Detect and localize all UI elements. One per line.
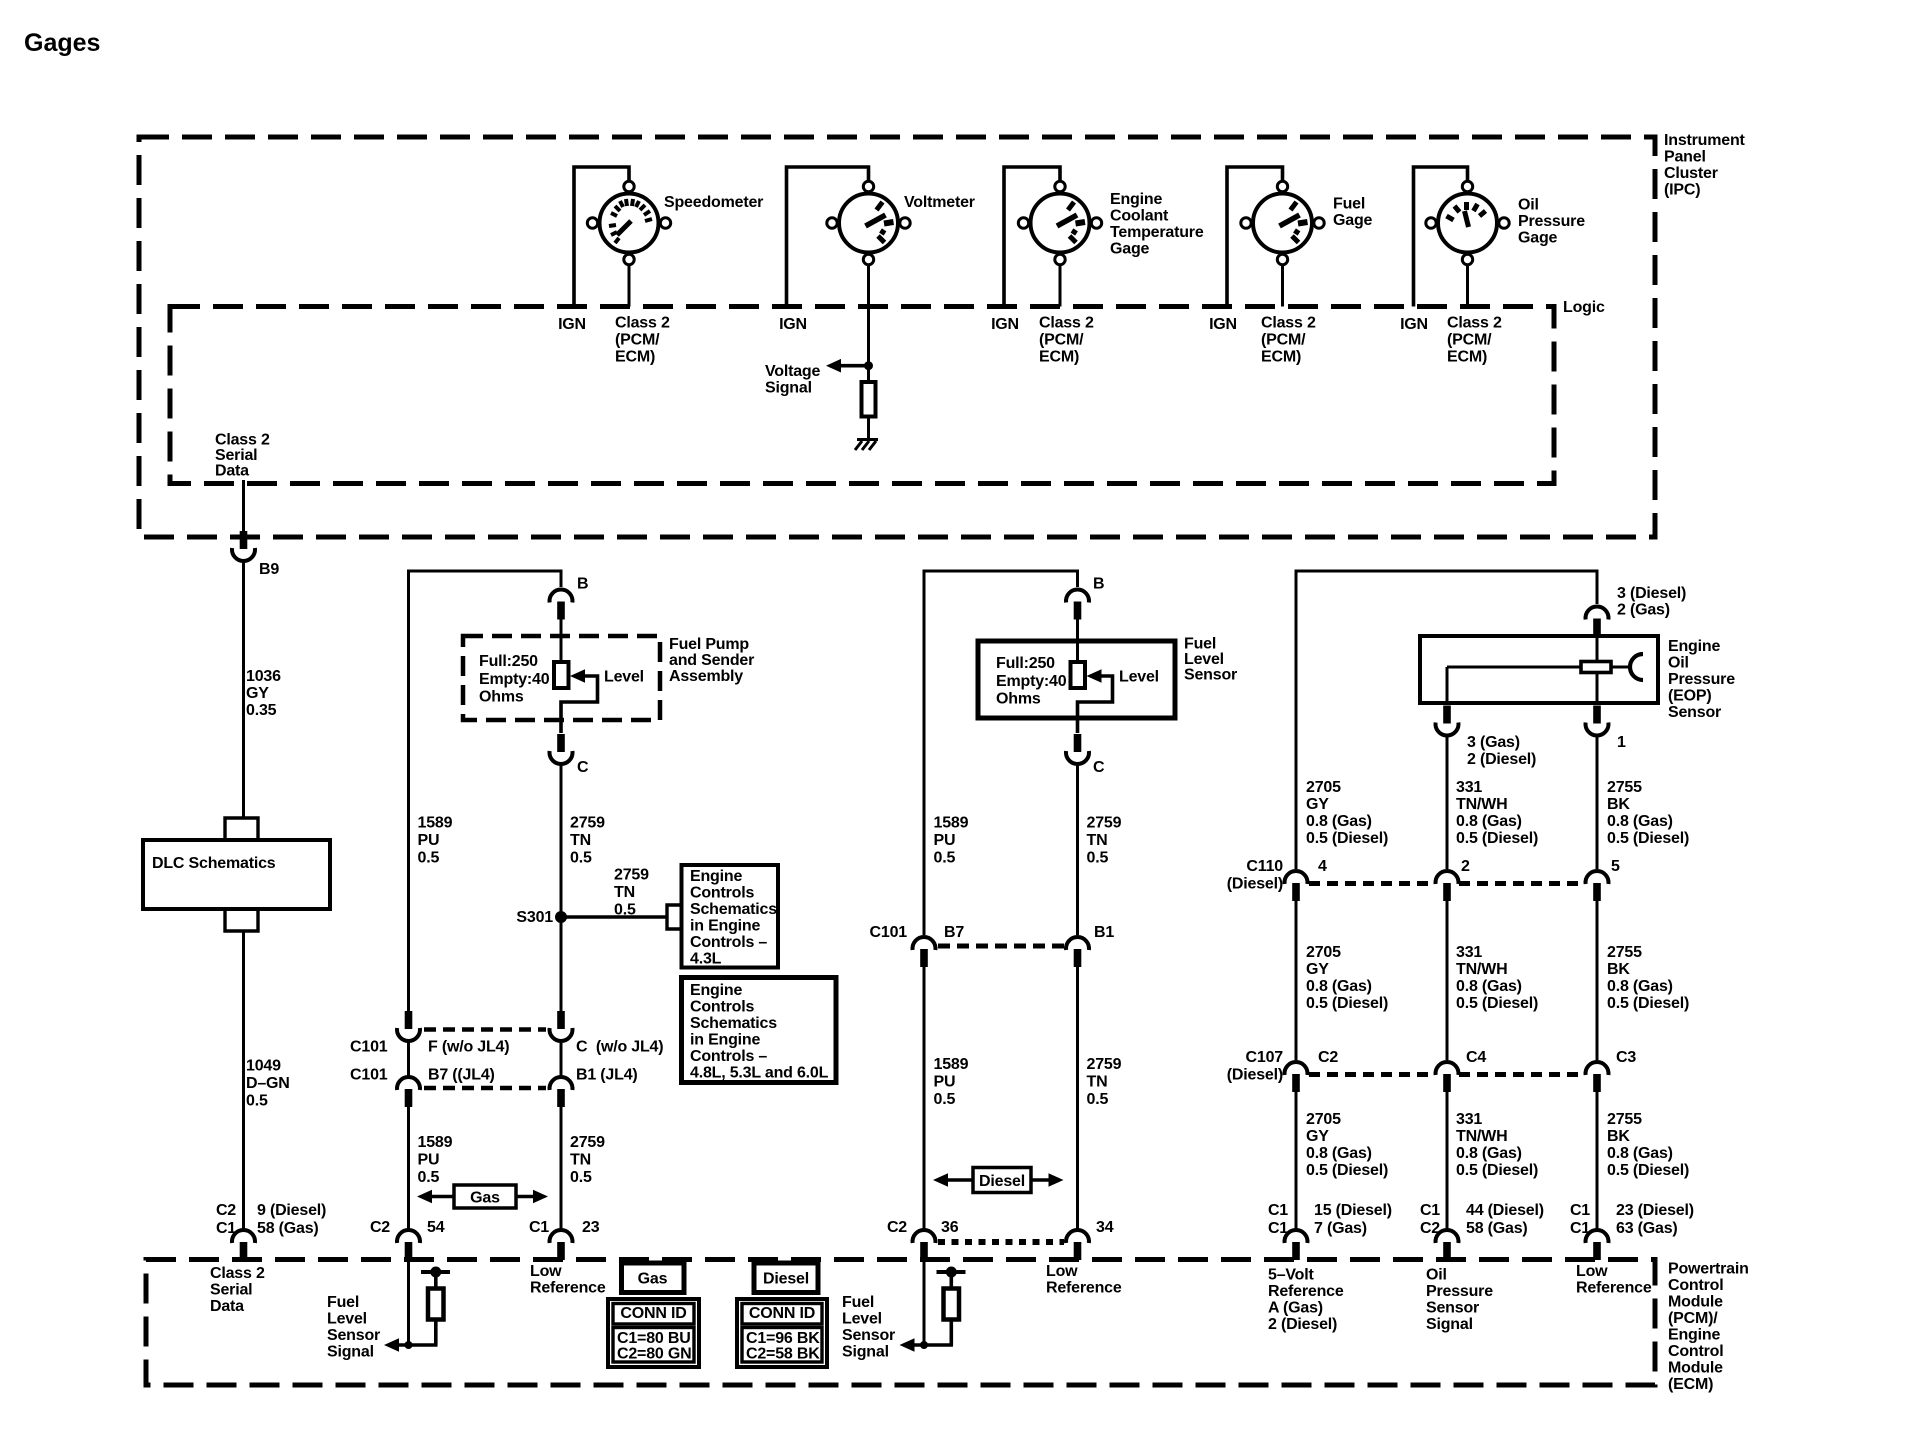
svg-text:TN/WH: TN/WH — [1456, 796, 1507, 813]
Engine Oil Pressure Sensor box — [1420, 636, 1658, 703]
svg-text:0.8 (Gas): 0.8 (Gas) — [1456, 1145, 1522, 1162]
svg-text:0.5: 0.5 — [570, 850, 592, 867]
wire into fuel level sensor — [1076, 619, 1079, 663]
svg-text:0.8 (Gas): 0.8 (Gas) — [1607, 813, 1673, 830]
svg-text:Sensor: Sensor — [1668, 704, 1721, 721]
svg-text:TN/WH: TN/WH — [1456, 961, 1507, 978]
Engine Controls Schematics 4.3L box — [682, 865, 779, 968]
svg-text:Reference: Reference — [1576, 1280, 1652, 1297]
connector C fuel pump — [550, 734, 573, 764]
svg-text:0.5: 0.5 — [614, 902, 636, 919]
gauge oil pressure — [1426, 181, 1509, 264]
svg-text:IGN: IGN — [1400, 316, 1428, 333]
svg-text:Gage: Gage — [1110, 241, 1150, 258]
Gas conn id label box — [622, 1263, 685, 1293]
svg-text:F (w/o JL4): F (w/o JL4) — [428, 1039, 509, 1056]
wire IGN feed speedometer — [574, 167, 629, 307]
svg-text:3 (Gas): 3 (Gas) — [1467, 734, 1520, 751]
svg-text:Class 2: Class 2 — [615, 315, 670, 332]
svg-text:IGN: IGN — [779, 316, 807, 333]
Fuel Level Sensor box — [978, 641, 1175, 718]
svg-text:Speedometer: Speedometer — [664, 194, 763, 211]
svg-text:0.5 (Diesel): 0.5 (Diesel) — [1306, 830, 1388, 847]
dashed connector row lines C101 — [424, 1027, 546, 1032]
svg-text:2759: 2759 — [614, 867, 649, 884]
svg-text:Engine: Engine — [690, 868, 742, 885]
svg-text:Engine: Engine — [1668, 1327, 1720, 1344]
wire S301 branch to engine controls — [561, 915, 667, 919]
svg-text:B9: B9 — [259, 561, 279, 578]
svg-text:B: B — [1093, 576, 1104, 593]
svg-text:Logic: Logic — [1563, 299, 1605, 316]
svg-text:Pressure: Pressure — [1668, 671, 1735, 688]
svg-text:58 (Gas): 58 (Gas) — [257, 1220, 319, 1237]
svg-text:CONN ID: CONN ID — [749, 1305, 815, 1322]
svg-text:1: 1 — [1617, 734, 1626, 751]
svg-text:C1: C1 — [1570, 1202, 1590, 1219]
svg-text:331: 331 — [1456, 779, 1482, 796]
svg-text:0.5 (Diesel): 0.5 (Diesel) — [1456, 1162, 1538, 1179]
svg-text:4: 4 — [1318, 858, 1327, 875]
DLC Schematics box — [143, 840, 330, 909]
wiper arrow and level wire (gas) — [570, 669, 585, 683]
svg-text:C: C — [1093, 759, 1105, 776]
svg-text:ECM): ECM) — [615, 349, 655, 366]
svg-text:Gage: Gage — [1518, 230, 1558, 247]
svg-text:Voltmeter: Voltmeter — [904, 194, 975, 211]
svg-text:1036: 1036 — [246, 668, 281, 685]
svg-text:C2: C2 — [216, 1202, 236, 1219]
svg-text:Full:250: Full:250 — [996, 655, 1055, 672]
svg-text:Gage: Gage — [1333, 212, 1373, 229]
resistor fuel level sensor (diesel) — [1071, 662, 1086, 688]
svg-text:0.8 (Gas): 0.8 (Gas) — [1456, 813, 1522, 830]
svg-text:D–GN: D–GN — [246, 1075, 290, 1092]
Fuel Pump and Sender Assembly dashed box — [463, 636, 660, 720]
svg-text:Serial: Serial — [210, 1282, 252, 1299]
svg-text:C2: C2 — [370, 1219, 390, 1236]
svg-text:Serial: Serial — [215, 447, 257, 464]
svg-text:0.5 (Diesel): 0.5 (Diesel) — [1306, 1162, 1388, 1179]
svg-text:GY: GY — [246, 685, 269, 702]
Engine Controls Schematics 4.8L box — [682, 978, 837, 1083]
svg-text:C1=96 BK: C1=96 BK — [746, 1330, 820, 1347]
svg-text:GY: GY — [1306, 796, 1329, 813]
svg-text:2759: 2759 — [1087, 1056, 1122, 1073]
svg-text:5: 5 — [1611, 858, 1620, 875]
svg-text:0.5: 0.5 — [934, 850, 956, 867]
wiper arrow and level wire (diesel) — [1087, 669, 1102, 683]
svg-text:DLC Schematics: DLC Schematics — [152, 855, 276, 872]
svg-text:Engine: Engine — [1668, 638, 1720, 655]
svg-text:0.5 (Diesel): 0.5 (Diesel) — [1607, 830, 1689, 847]
svg-text:4.3L: 4.3L — [690, 951, 722, 968]
svg-text:B7: B7 — [944, 924, 964, 941]
svg-text:Controls: Controls — [690, 885, 754, 902]
svg-text:B7 ((JL4): B7 ((JL4) — [428, 1067, 495, 1084]
svg-text:(PCM/: (PCM/ — [615, 332, 660, 349]
svg-text:Ohms: Ohms — [479, 689, 524, 706]
svg-text:(PCM/: (PCM/ — [1261, 332, 1306, 349]
svg-text:Sensor: Sensor — [327, 1327, 380, 1344]
svg-text:(PCM)/: (PCM)/ — [1668, 1310, 1718, 1327]
Diesel range arrows and box — [933, 1173, 948, 1187]
svg-text:IGN: IGN — [1209, 316, 1237, 333]
connector low reference into PCM (gas) — [550, 1230, 573, 1260]
svg-text:BK: BK — [1607, 796, 1630, 813]
svg-text:34: 34 — [1096, 1219, 1114, 1236]
svg-text:C4: C4 — [1466, 1049, 1486, 1066]
svg-text:Control: Control — [1668, 1277, 1723, 1294]
svg-text:7 (Gas): 7 (Gas) — [1314, 1220, 1367, 1237]
svg-text:C101: C101 — [350, 1067, 388, 1084]
svg-text:Controls: Controls — [690, 999, 754, 1016]
EOP internal wires — [1596, 636, 1599, 662]
svg-text:1589: 1589 — [418, 1134, 453, 1151]
connector C101 F upper half (left wire) — [397, 1011, 420, 1041]
svg-text:Module: Module — [1668, 1360, 1723, 1377]
svg-text:C (w/o JL4): C (w/o JL4) — [576, 1039, 663, 1056]
svg-text:C2=58 BK: C2=58 BK — [746, 1346, 820, 1363]
svg-text:Engine: Engine — [1110, 191, 1162, 208]
dashed jumpers C107 — [1309, 1072, 1435, 1077]
svg-text:(IPC): (IPC) — [1664, 182, 1700, 199]
wires C110 to C107 — [1295, 900, 1298, 1060]
svg-text:1589: 1589 — [934, 815, 969, 832]
wire gas fuel sender rail — [409, 571, 562, 1015]
svg-text:0.5: 0.5 — [570, 1169, 592, 1186]
svg-text:in Engine: in Engine — [690, 1032, 761, 1049]
CONN ID table gas — [608, 1299, 699, 1367]
svg-text:Class 2: Class 2 — [1039, 315, 1094, 332]
svg-text:2 (Diesel): 2 (Diesel) — [1467, 751, 1536, 768]
svg-text:331: 331 — [1456, 1111, 1482, 1128]
dotted jumper connectors 36-34 — [938, 1239, 1064, 1245]
svg-text:Fuel Pump: Fuel Pump — [669, 636, 749, 653]
svg-text:Gas: Gas — [638, 1271, 668, 1288]
svg-text:TN/WH: TN/WH — [1456, 1128, 1507, 1145]
gauge engine coolant temperature — [1018, 181, 1101, 264]
svg-text:Gas: Gas — [470, 1190, 500, 1207]
svg-text:0.8 (Gas): 0.8 (Gas) — [1456, 978, 1522, 995]
svg-text:Class 2: Class 2 — [210, 1265, 265, 1282]
svg-text:Oil: Oil — [1668, 655, 1689, 672]
svg-text:0.5: 0.5 — [1087, 1091, 1109, 1108]
connector C fuel level sensor — [1066, 734, 1089, 764]
svg-text:2759: 2759 — [570, 815, 605, 832]
svg-text:2705: 2705 — [1306, 779, 1341, 796]
svg-text:1049: 1049 — [246, 1058, 281, 1075]
svg-text:2705: 2705 — [1306, 1111, 1341, 1128]
svg-text:1589: 1589 — [418, 815, 453, 832]
wires C107 to PCM — [1295, 1091, 1298, 1229]
svg-text:ECM): ECM) — [1447, 349, 1487, 366]
connector low reference into PCM (diesel) — [1066, 1230, 1089, 1260]
svg-text:0.8 (Gas): 0.8 (Gas) — [1306, 1145, 1372, 1162]
svg-text:TN: TN — [614, 884, 635, 901]
svg-text:Schematics: Schematics — [690, 1015, 777, 1032]
svg-text:Module: Module — [1668, 1294, 1723, 1311]
resistor fuel sender (gas) — [554, 662, 569, 688]
gauge speedometer — [587, 181, 670, 264]
svg-text:Sensor: Sensor — [842, 1327, 895, 1344]
svg-text:Data: Data — [215, 463, 249, 480]
svg-text:Signal: Signal — [1426, 1316, 1473, 1333]
connector B fuel pump — [550, 589, 573, 619]
svg-text:GY: GY — [1306, 961, 1329, 978]
svg-text:Schematics: Schematics — [690, 901, 777, 918]
connector fuel level sensor signal into PCM (gas) — [397, 1230, 420, 1260]
svg-text:2755: 2755 — [1607, 944, 1642, 961]
svg-text:B: B — [577, 576, 588, 593]
connector B fuel level sensor — [1066, 589, 1089, 619]
connector EOP pin top — [1586, 606, 1609, 636]
svg-text:Class 2: Class 2 — [215, 432, 270, 449]
svg-text:Fuel: Fuel — [1333, 196, 1365, 213]
IPC logic dashed box — [170, 307, 1554, 484]
connector EOP pin bottom right — [1586, 706, 1609, 736]
svg-text:2759: 2759 — [1087, 815, 1122, 832]
svg-text:TN: TN — [570, 832, 591, 849]
svg-text:Diesel: Diesel — [979, 1173, 1025, 1190]
svg-text:C3: C3 — [1616, 1049, 1636, 1066]
svg-text:(PCM/: (PCM/ — [1447, 332, 1492, 349]
svg-text:0.5 (Diesel): 0.5 (Diesel) — [1607, 995, 1689, 1012]
connectors C110 row — [1285, 871, 1308, 901]
wire 1589 PU lower (gas) — [407, 1106, 410, 1229]
svg-text:(PCM/: (PCM/ — [1039, 332, 1084, 349]
connector C101 C upper half (right wire) — [550, 1011, 573, 1041]
svg-text:(Diesel): (Diesel) — [1227, 876, 1283, 893]
svg-text:0.5 (Diesel): 0.5 (Diesel) — [1306, 995, 1388, 1012]
svg-text:0.35: 0.35 — [246, 702, 277, 719]
PCM internal: fuel level sensor signal circuit (gas) — [407, 1260, 410, 1345]
svg-text:2759: 2759 — [570, 1134, 605, 1151]
svg-text:A (Gas): A (Gas) — [1268, 1300, 1323, 1317]
svg-text:TN: TN — [1087, 832, 1108, 849]
svg-text:Low: Low — [1576, 1263, 1608, 1280]
svg-text:Reference: Reference — [530, 1280, 606, 1297]
wire voltmeter voltage signal — [867, 265, 870, 382]
svg-text:ECM): ECM) — [1039, 349, 1079, 366]
svg-text:3 (Diesel): 3 (Diesel) — [1617, 585, 1686, 602]
svg-text:0.5: 0.5 — [1087, 850, 1109, 867]
svg-text:CONN ID: CONN ID — [620, 1305, 686, 1322]
svg-text:PU: PU — [418, 832, 440, 849]
svg-text:Level: Level — [604, 669, 644, 686]
svg-text:Reference: Reference — [1046, 1280, 1122, 1297]
svg-text:2755: 2755 — [1607, 1111, 1642, 1128]
wire 2759 TN upper (gas) — [560, 764, 563, 1015]
svg-text:Engine: Engine — [690, 982, 742, 999]
svg-text:Coolant: Coolant — [1110, 208, 1169, 225]
CONN ID table diesel — [737, 1299, 827, 1367]
svg-text:Level: Level — [1119, 669, 1159, 686]
EOP internal sense element — [1581, 662, 1611, 673]
svg-text:Temperature: Temperature — [1110, 224, 1204, 241]
svg-text:IGN: IGN — [558, 316, 586, 333]
svg-text:PU: PU — [418, 1152, 440, 1169]
svg-text:0.5: 0.5 — [934, 1091, 956, 1108]
gauge fuel — [1241, 181, 1324, 264]
svg-text:C110: C110 — [1246, 858, 1283, 875]
svg-text:54: 54 — [427, 1219, 445, 1236]
svg-text:C1=80 BU: C1=80 BU — [617, 1330, 691, 1347]
svg-text:5–Volt: 5–Volt — [1268, 1267, 1315, 1284]
terminal clip DLC top — [225, 818, 258, 838]
svg-text:Pressure: Pressure — [1518, 213, 1585, 230]
svg-text:and Sender: and Sender — [669, 652, 754, 669]
svg-text:(Diesel): (Diesel) — [1227, 1067, 1283, 1084]
svg-text:PU: PU — [934, 1074, 956, 1091]
svg-text:Controls –: Controls – — [690, 934, 767, 951]
svg-text:2 (Diesel): 2 (Diesel) — [1268, 1316, 1337, 1333]
wire class 2 serial data — [242, 480, 245, 532]
svg-text:0.5 (Diesel): 0.5 (Diesel) — [1456, 995, 1538, 1012]
svg-text:Empty:40: Empty:40 — [996, 673, 1067, 690]
connector C101 B7 (diesel) — [913, 937, 936, 967]
svg-text:(EOP): (EOP) — [1668, 688, 1711, 705]
svg-text:Cluster: Cluster — [1664, 165, 1718, 182]
svg-text:Level: Level — [327, 1311, 367, 1328]
svg-text:23: 23 — [582, 1219, 600, 1236]
svg-text:C2: C2 — [887, 1219, 907, 1236]
PCM dashed box — [146, 1260, 1655, 1386]
off-page bracket — [667, 905, 681, 929]
svg-text:Level: Level — [1184, 651, 1224, 668]
wire IGN feed fuel gage — [1227, 167, 1283, 307]
wire between C101 halves (left) — [407, 1041, 410, 1077]
svg-text:Full:250: Full:250 — [479, 653, 538, 670]
wire IGN feed voltmeter — [787, 167, 869, 307]
svg-text:36: 36 — [941, 1219, 959, 1236]
svg-text:C101: C101 — [870, 924, 908, 941]
svg-text:TN: TN — [570, 1152, 591, 1169]
svg-text:Sensor: Sensor — [1184, 667, 1237, 684]
wire 1036 GY — [242, 561, 245, 817]
connector EOP pin bottom mid — [1436, 706, 1459, 736]
svg-text:Signal: Signal — [842, 1344, 889, 1361]
svg-text:Ohms: Ohms — [996, 691, 1041, 708]
wire oil gage class 2 output — [1466, 265, 1469, 307]
Gas range arrows and box — [417, 1190, 432, 1204]
svg-text:TN: TN — [1087, 1074, 1108, 1091]
svg-text:Empty:40: Empty:40 — [479, 671, 550, 688]
wire 2759 TN lower (gas) — [560, 1106, 563, 1229]
svg-text:C1: C1 — [529, 1219, 549, 1236]
svg-text:Gages: Gages — [24, 29, 100, 57]
svg-text:B1 (JL4): B1 (JL4) — [576, 1067, 638, 1084]
svg-text:in Engine: in Engine — [690, 918, 761, 935]
wire IGN feed ECT gage — [1004, 167, 1060, 307]
connector C101 B1 lower half (right wire) — [550, 1077, 573, 1107]
connector class2 into PCM — [232, 1230, 255, 1260]
svg-text:(ECM): (ECM) — [1668, 1376, 1713, 1393]
connector C101 B1 (diesel) — [1066, 937, 1089, 967]
svg-text:58 (Gas): 58 (Gas) — [1466, 1220, 1528, 1237]
ground voltmeter — [855, 440, 878, 451]
connector fuel level sensor signal into PCM (diesel) — [913, 1230, 936, 1260]
svg-text:9 (Diesel): 9 (Diesel) — [257, 1202, 326, 1219]
svg-text:4.8L, 5.3L and 6.0L: 4.8L, 5.3L and 6.0L — [690, 1065, 829, 1082]
Instrument Panel Cluster (IPC) dashed box — [139, 137, 1655, 537]
svg-text:Oil: Oil — [1518, 197, 1539, 214]
svg-text:Controls –: Controls – — [690, 1048, 767, 1065]
Diesel conn id label box — [754, 1263, 818, 1293]
svg-text:Class 2: Class 2 — [1447, 315, 1502, 332]
svg-text:Signal: Signal — [327, 1344, 374, 1361]
svg-text:Powertrain: Powertrain — [1668, 1261, 1749, 1278]
svg-text:2: 2 — [1461, 858, 1470, 875]
svg-text:C: C — [577, 759, 589, 776]
svg-text:Low: Low — [530, 1263, 562, 1280]
svg-text:Panel: Panel — [1664, 149, 1706, 166]
wires EOP columns to C110 — [1446, 736, 1449, 870]
wire IGN feed oil pressure gage — [1414, 167, 1468, 307]
svg-text:331: 331 — [1456, 944, 1482, 961]
svg-text:PU: PU — [934, 832, 956, 849]
wire between C101 halves (right) — [560, 1041, 563, 1077]
svg-text:0.5 (Diesel): 0.5 (Diesel) — [1607, 1162, 1689, 1179]
svg-text:Voltage: Voltage — [765, 363, 821, 380]
wire fuel gage class 2 output — [1281, 265, 1284, 307]
wire ECT class 2 output — [1059, 265, 1062, 307]
gauge voltmeter — [827, 181, 910, 264]
svg-text:0.5 (Diesel): 0.5 (Diesel) — [1456, 830, 1538, 847]
svg-text:Class 2: Class 2 — [1261, 315, 1316, 332]
svg-text:C107: C107 — [1246, 1049, 1284, 1066]
svg-text:23 (Diesel): 23 (Diesel) — [1616, 1202, 1694, 1219]
svg-text:GY: GY — [1306, 1128, 1329, 1145]
svg-text:0.8 (Gas): 0.8 (Gas) — [1306, 813, 1372, 830]
dashed jumpers C110 — [1309, 881, 1435, 886]
connectors C107 row — [1285, 1062, 1308, 1092]
svg-text:S301: S301 — [516, 909, 553, 926]
svg-text:Signal: Signal — [765, 380, 812, 397]
arrow voltage signal — [836, 364, 869, 368]
svg-text:Fuel: Fuel — [1184, 636, 1216, 653]
svg-text:Data: Data — [210, 1298, 244, 1315]
svg-text:0.5: 0.5 — [418, 1169, 440, 1186]
svg-text:0.8 (Gas): 0.8 (Gas) — [1306, 978, 1372, 995]
terminal clip DLC bottom — [225, 911, 258, 931]
svg-text:Level: Level — [842, 1311, 882, 1328]
svg-text:Control: Control — [1668, 1343, 1723, 1360]
svg-text:Oil: Oil — [1426, 1267, 1447, 1284]
svg-text:Fuel: Fuel — [327, 1294, 359, 1311]
svg-text:0.8 (Gas): 0.8 (Gas) — [1607, 978, 1673, 995]
connectors into PCM EOP columns — [1285, 1230, 1308, 1260]
svg-text:B1: B1 — [1094, 924, 1114, 941]
wire into fuel pump — [560, 619, 563, 663]
wire speedometer class 2 output — [628, 265, 631, 307]
resistor voltmeter load — [862, 382, 876, 417]
wire 1049 D-GN — [242, 931, 245, 1229]
svg-text:C101: C101 — [350, 1039, 388, 1056]
svg-text:Low: Low — [1046, 1263, 1078, 1280]
PCM internal: fuel level sensor signal circuit (diesel) — [923, 1260, 926, 1345]
svg-text:Sensor: Sensor — [1426, 1300, 1479, 1317]
svg-text:C2=80 GN: C2=80 GN — [617, 1346, 691, 1363]
wire 1589 PU lower (diesel) — [923, 966, 926, 1229]
svg-text:C1: C1 — [1268, 1202, 1288, 1219]
svg-text:C2: C2 — [1318, 1049, 1338, 1066]
connector B9 — [232, 531, 255, 561]
svg-text:Diesel: Diesel — [763, 1271, 809, 1288]
svg-text:0.5: 0.5 — [246, 1093, 268, 1110]
wire EOP rail — [1296, 571, 1597, 869]
svg-text:63 (Gas): 63 (Gas) — [1616, 1220, 1678, 1237]
